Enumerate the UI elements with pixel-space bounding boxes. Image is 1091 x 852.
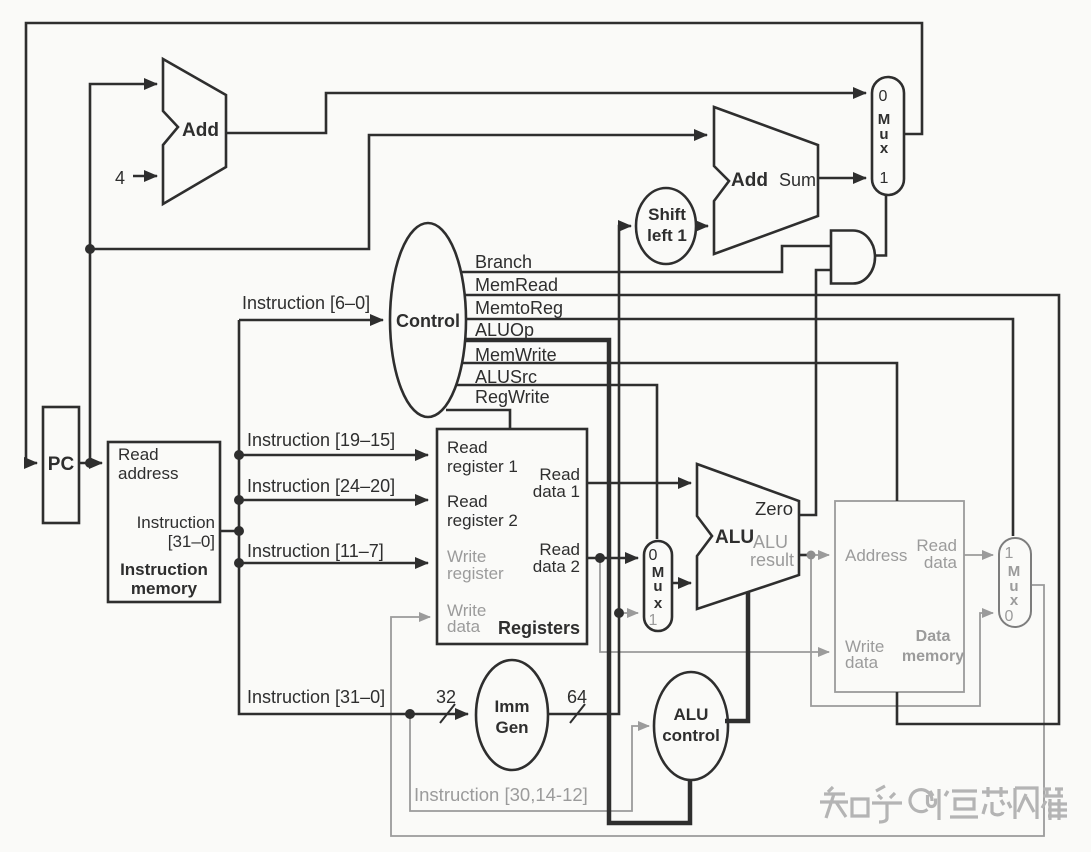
svg-text:Registers: Registers xyxy=(498,618,580,638)
svg-text:ALUSrc: ALUSrc xyxy=(475,367,537,387)
svg-text:data 2: data 2 xyxy=(533,557,580,576)
svg-text:Add: Add xyxy=(731,170,768,191)
svg-text:register: register xyxy=(447,564,504,583)
svg-text:Instruction: Instruction xyxy=(120,560,208,579)
svg-text:ALU: ALU xyxy=(753,532,788,552)
svg-text:Gen: Gen xyxy=(495,718,528,737)
svg-text:Read: Read xyxy=(118,445,159,464)
svg-text:Read: Read xyxy=(447,492,488,511)
svg-text:ALU: ALU xyxy=(715,527,754,548)
svg-text:Data: Data xyxy=(916,628,951,645)
svg-text:Instruction [11–7]: Instruction [11–7] xyxy=(247,541,384,561)
svg-text:result: result xyxy=(750,550,794,570)
svg-text:Instruction [6–0]: Instruction [6–0] xyxy=(242,293,370,313)
svg-text:Instruction [30,14-12]: Instruction [30,14-12] xyxy=(414,784,588,805)
svg-text:Branch: Branch xyxy=(475,252,532,272)
svg-text:memory: memory xyxy=(131,579,198,598)
svg-text:left 1: left 1 xyxy=(647,226,687,245)
svg-text:RegWrite: RegWrite xyxy=(475,387,550,407)
svg-text:Instruction: Instruction xyxy=(137,513,215,532)
svg-text:ALUOp: ALUOp xyxy=(475,320,534,340)
svg-text:PC: PC xyxy=(48,454,75,475)
svg-text:MemRead: MemRead xyxy=(475,275,558,295)
svg-text:1: 1 xyxy=(1005,545,1014,562)
svg-text:1: 1 xyxy=(880,170,889,187)
svg-text:u: u xyxy=(653,578,662,595)
svg-text:register 1: register 1 xyxy=(447,457,518,476)
svg-text:address: address xyxy=(118,464,178,483)
svg-text:0: 0 xyxy=(879,88,888,105)
svg-text:MemWrite: MemWrite xyxy=(475,345,557,365)
svg-text:32: 32 xyxy=(436,687,456,707)
svg-text:Address: Address xyxy=(845,546,907,565)
svg-text:Add: Add xyxy=(182,120,219,141)
svg-text:0: 0 xyxy=(649,547,658,564)
svg-text:Instruction [24–20]: Instruction [24–20] xyxy=(247,476,395,496)
svg-text:Shift: Shift xyxy=(648,205,686,224)
svg-text:data: data xyxy=(447,617,481,636)
svg-text:data 1: data 1 xyxy=(533,482,580,501)
svg-text:Zero: Zero xyxy=(755,498,793,519)
svg-text:0: 0 xyxy=(1005,608,1014,625)
svg-text:ALU: ALU xyxy=(674,705,709,724)
svg-text:control: control xyxy=(662,726,720,745)
svg-text:4: 4 xyxy=(115,168,125,188)
svg-text:Sum: Sum xyxy=(779,170,816,190)
svg-text:x: x xyxy=(880,140,889,157)
svg-text:[31–0]: [31–0] xyxy=(168,532,215,551)
svg-text:1: 1 xyxy=(649,612,658,629)
svg-text:Control: Control xyxy=(396,311,460,331)
svg-text:Instruction [31–0]: Instruction [31–0] xyxy=(247,687,385,707)
svg-text:x: x xyxy=(1010,592,1019,609)
svg-text:Instruction [19–15]: Instruction [19–15] xyxy=(247,430,395,450)
svg-text:Read: Read xyxy=(447,438,488,457)
svg-text:data: data xyxy=(845,653,879,672)
svg-text:register 2: register 2 xyxy=(447,511,518,530)
svg-text:Imm: Imm xyxy=(495,697,530,716)
svg-text:64: 64 xyxy=(567,687,587,707)
svg-text:memory: memory xyxy=(902,648,964,665)
svg-text:x: x xyxy=(654,595,663,612)
svg-text:MemtoReg: MemtoReg xyxy=(475,298,563,318)
svg-text:data: data xyxy=(924,553,958,572)
